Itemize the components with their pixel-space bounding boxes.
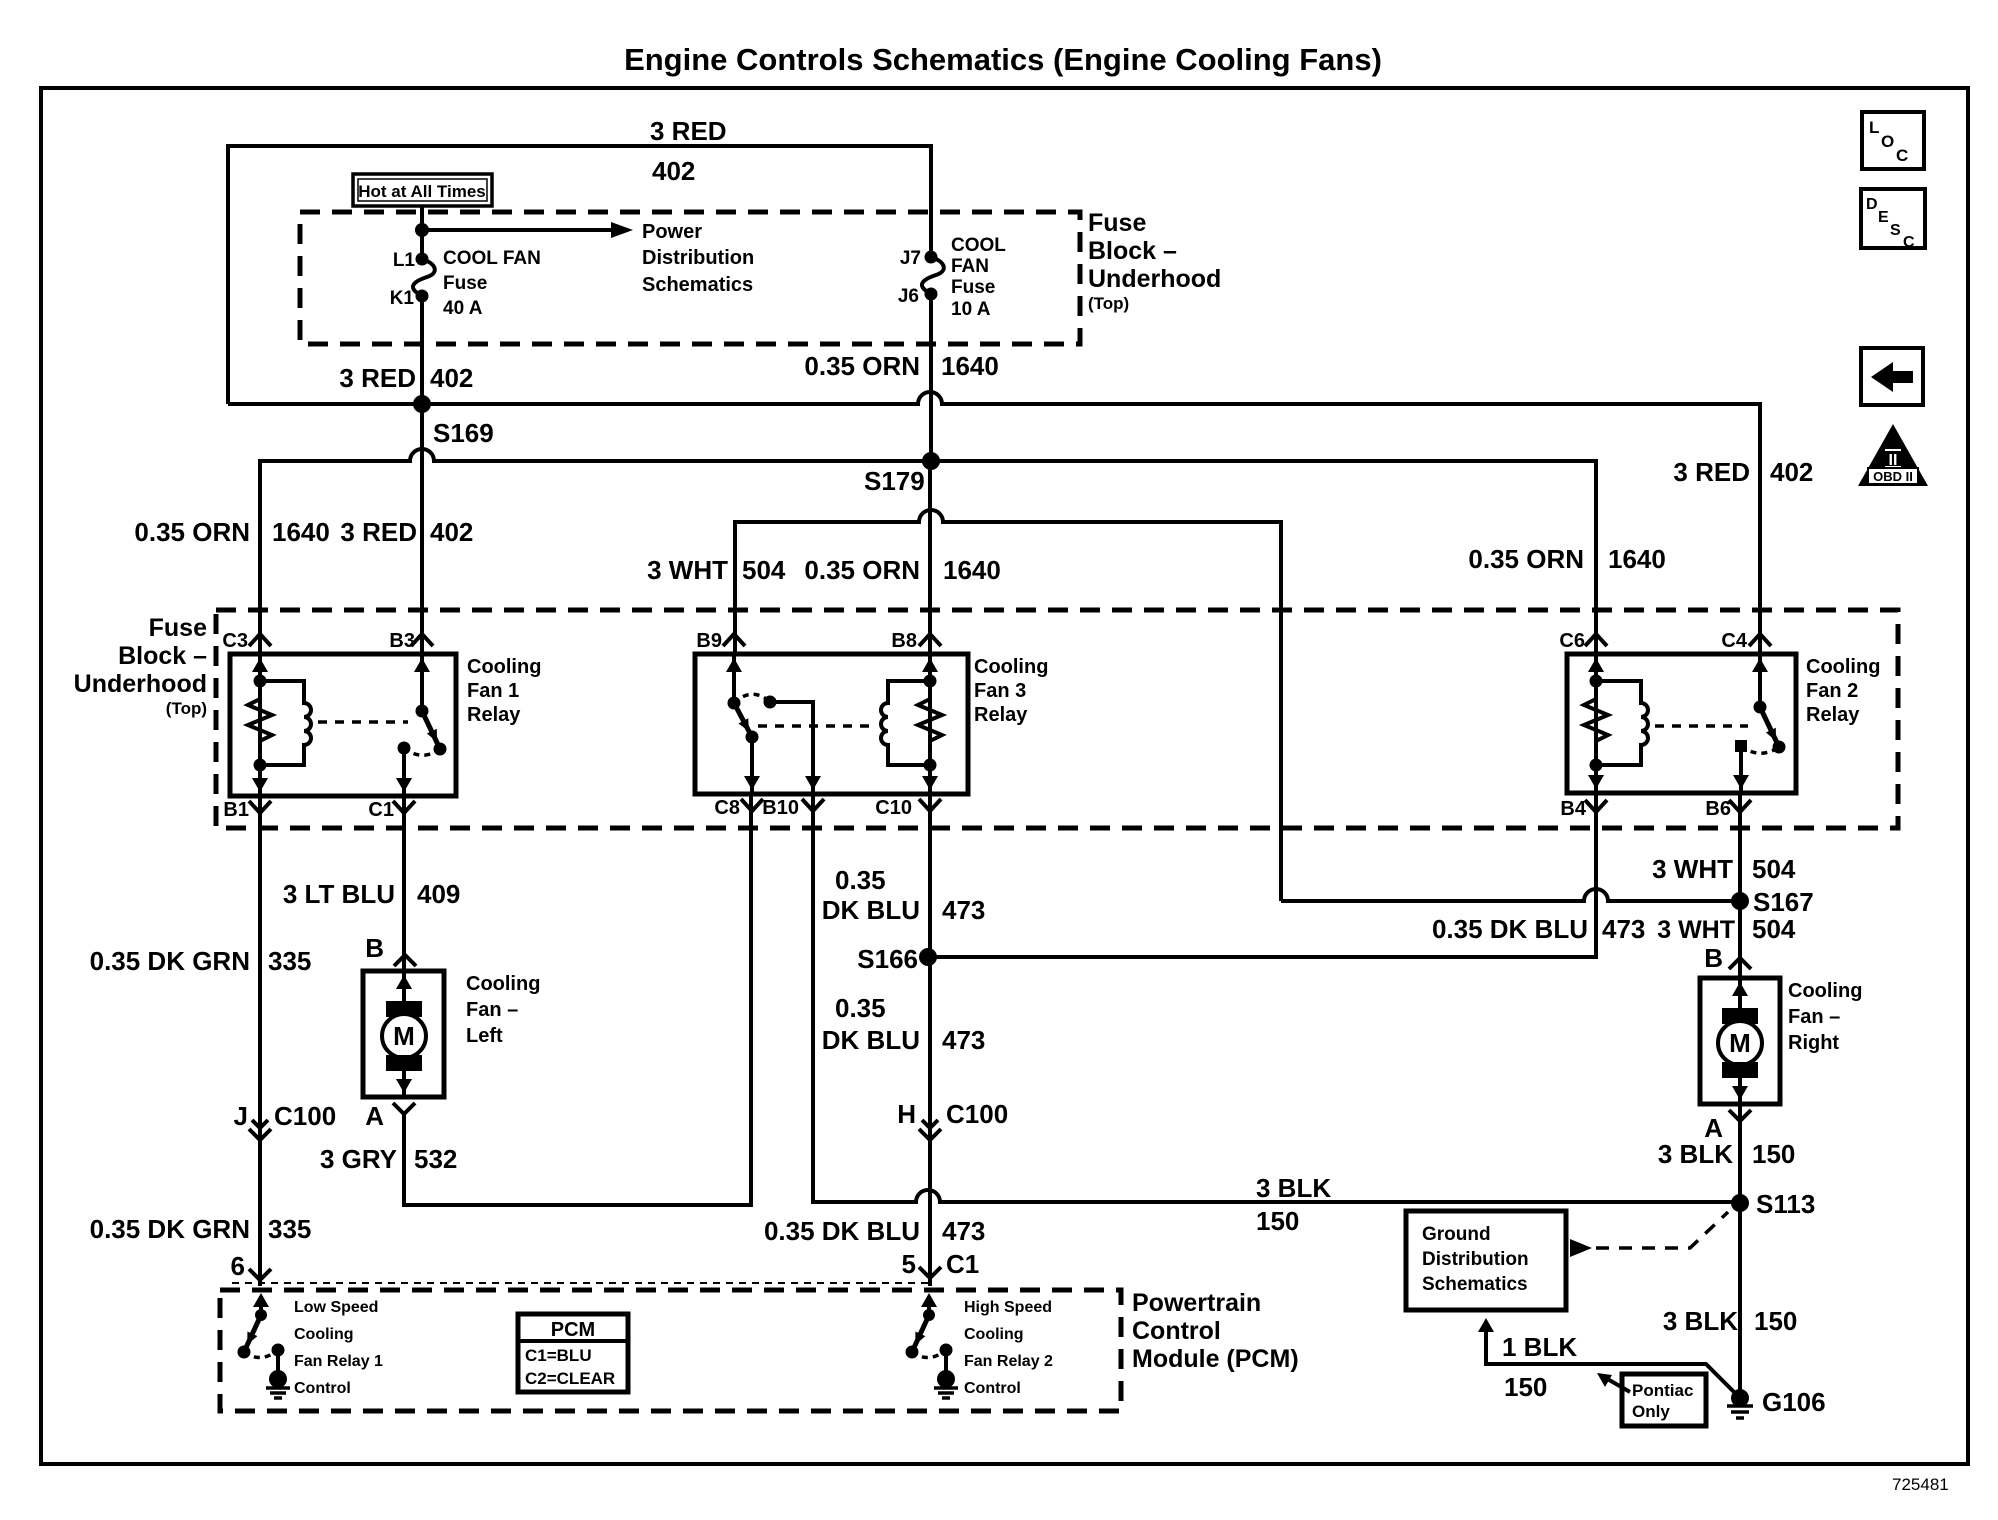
node S179 <box>922 452 940 470</box>
svg-text:Block –: Block – <box>1088 237 1177 265</box>
relay 3 resistor <box>918 699 942 741</box>
svg-text:3 GRY: 3 GRY <box>320 1144 397 1174</box>
svg-text:S166: S166 <box>857 944 918 974</box>
svg-text:3 RED: 3 RED <box>1673 457 1750 487</box>
relay 1 coil branch wire <box>258 654 262 796</box>
svg-text:Fan –: Fan – <box>466 999 518 1021</box>
svg-text:3 RED: 3 RED <box>340 517 417 547</box>
svg-text:DK BLU: DK BLU <box>822 895 920 925</box>
PCM low-speed driver switch <box>238 1293 291 1398</box>
svg-text:504: 504 <box>742 555 786 585</box>
svg-text:B: B <box>365 933 384 963</box>
svg-text:B9: B9 <box>696 630 722 652</box>
svg-text:473: 473 <box>1602 914 1645 944</box>
svg-text:C: C <box>1896 146 1908 165</box>
svg-text:3 RED: 3 RED <box>650 116 727 146</box>
svg-text:B3: B3 <box>389 630 415 652</box>
svg-text:3 BLK: 3 BLK <box>1663 1306 1738 1336</box>
svg-text:G106: G106 <box>1762 1387 1826 1417</box>
svg-text:504: 504 <box>1752 854 1796 884</box>
svg-text:Fan 1: Fan 1 <box>467 680 519 702</box>
svg-text:0.35 DK GRN: 0.35 DK GRN <box>90 1214 250 1244</box>
svg-text:150: 150 <box>1754 1306 1797 1336</box>
fuse COOL FAN 10A (J7/J6) <box>898 235 1006 320</box>
svg-text:C10: C10 <box>875 797 912 819</box>
wire S169 row with hop over ORN wire, to C4 riser <box>228 392 1760 654</box>
svg-text:150: 150 <box>1256 1206 1299 1236</box>
svg-text:(Top): (Top) <box>1088 294 1129 313</box>
svg-text:Ground: Ground <box>1422 1224 1491 1245</box>
svg-text:Fan 2: Fan 2 <box>1806 680 1858 702</box>
svg-text:473: 473 <box>942 1216 985 1246</box>
svg-text:C4: C4 <box>1721 630 1747 652</box>
svg-text:S179: S179 <box>864 466 925 496</box>
fuse block underhood dashed box (top) <box>300 212 1080 344</box>
svg-text:C1: C1 <box>368 799 394 821</box>
svg-text:Fan Relay 2: Fan Relay 2 <box>964 1353 1053 1370</box>
svg-text:Relay: Relay <box>1806 704 1860 726</box>
svg-text:Powertrain: Powertrain <box>1132 1289 1261 1317</box>
svg-text:0.35 ORN: 0.35 ORN <box>804 555 920 585</box>
fuse block underhood dashed box (main) <box>216 610 1898 828</box>
node S167 <box>1731 892 1749 910</box>
wire B1 down to PCM pin 6 <box>258 796 262 1286</box>
svg-text:Fuse: Fuse <box>149 614 207 642</box>
svg-text:504: 504 <box>1752 914 1796 944</box>
motor fan right <box>1700 943 1862 1143</box>
wire B4 to S166 row <box>928 793 1596 957</box>
svg-text:B1: B1 <box>223 799 249 821</box>
svg-text:473: 473 <box>942 895 985 925</box>
PCM high-speed driver switch <box>906 1293 959 1398</box>
svg-text:C3: C3 <box>222 630 248 652</box>
wire 3 WHT 504 row into S167 with hop over B4 wire <box>1281 889 1740 901</box>
svg-text:150: 150 <box>1504 1372 1547 1402</box>
svg-text:Cooling: Cooling <box>974 656 1048 678</box>
DESC icon <box>1861 189 1925 251</box>
relay 3 coil branch <box>928 654 932 794</box>
svg-text:Only: Only <box>1632 1402 1670 1421</box>
label Fuse Block Underhood (top right) <box>1088 209 1221 313</box>
svg-text:PCM: PCM <box>551 1319 595 1341</box>
svg-text:J: J <box>234 1101 248 1131</box>
svg-text:Schematics: Schematics <box>1422 1274 1528 1295</box>
fuse COOL FAN 40A (L1/K1) <box>390 248 541 319</box>
svg-text:J7: J7 <box>900 248 921 269</box>
relay 2 resistor <box>1584 699 1608 741</box>
svg-text:C8: C8 <box>714 797 740 819</box>
svg-text:Cooling: Cooling <box>294 1326 354 1343</box>
wire 3 GRY fan A to relay3 C8 <box>404 794 751 1205</box>
svg-text:L: L <box>1869 118 1879 137</box>
svg-text:C100: C100 <box>946 1099 1008 1129</box>
svg-text:Hot at All Times: Hot at All Times <box>358 182 486 201</box>
svg-text:S167: S167 <box>1753 887 1814 917</box>
relay 3 mech dashed link <box>758 724 876 728</box>
svg-text:Distribution: Distribution <box>1422 1249 1529 1270</box>
svg-text:Fuse: Fuse <box>443 273 487 294</box>
svg-text:3 WHT: 3 WHT <box>1652 854 1733 884</box>
svg-text:Fan Relay 1: Fan Relay 1 <box>294 1353 383 1370</box>
relay U2 Cooling Fan 2 Relay box <box>1567 654 1796 793</box>
svg-text:0.35 ORN: 0.35 ORN <box>804 351 920 381</box>
svg-text:Cooling: Cooling <box>467 656 541 678</box>
wire 3 RED 402 top loop <box>228 146 931 404</box>
relay 2 switch <box>1758 654 1762 707</box>
svg-text:402: 402 <box>430 363 473 393</box>
svg-text:3 BLK: 3 BLK <box>1256 1173 1331 1203</box>
svg-text:Relay: Relay <box>974 704 1028 726</box>
LOC icon <box>1862 112 1924 169</box>
ground G106 <box>1731 1389 1749 1407</box>
svg-text:5: 5 <box>902 1249 916 1279</box>
svg-text:C1=BLU: C1=BLU <box>525 1346 592 1365</box>
svg-text:1640: 1640 <box>943 555 1001 585</box>
Ground Distribution Schematics box <box>1406 1211 1566 1310</box>
svg-text:Control: Control <box>294 1380 351 1397</box>
connector C1 dashed line <box>232 1282 928 1284</box>
svg-text:B10: B10 <box>762 797 799 819</box>
relay 2 coil <box>1596 681 1648 765</box>
relay U1 Cooling Fan 1 Relay box <box>230 654 456 796</box>
svg-text:Cooling: Cooling <box>1788 980 1862 1002</box>
node S169 <box>413 395 431 413</box>
PCM table <box>518 1314 628 1392</box>
svg-text:3 RED: 3 RED <box>339 363 416 393</box>
wire 1 BLK 150 to G106 <box>1486 1330 1740 1398</box>
relay 1 mech dashed link <box>318 720 408 724</box>
wire C10 down to PCM pin 5 <box>928 794 932 1286</box>
svg-text:0.35: 0.35 <box>835 865 886 895</box>
svg-text:1640: 1640 <box>1608 544 1666 574</box>
svg-text:OBD II: OBD II <box>1873 469 1913 484</box>
svg-text:Power: Power <box>642 221 702 243</box>
svg-text:High Speed: High Speed <box>964 1299 1052 1316</box>
svg-text:3 WHT: 3 WHT <box>647 555 728 585</box>
svg-text:Pontiac: Pontiac <box>1632 1381 1693 1400</box>
PCM dashed box <box>220 1290 1121 1411</box>
svg-text:150: 150 <box>1752 1139 1795 1169</box>
relay 2 coil branch <box>1594 654 1598 793</box>
svg-text:402: 402 <box>652 156 695 186</box>
svg-text:Fan –: Fan – <box>1788 1006 1840 1028</box>
svg-text:A: A <box>365 1101 384 1131</box>
svg-text:1640: 1640 <box>272 517 330 547</box>
relay 1 coil <box>260 681 311 765</box>
svg-text:M: M <box>1729 1028 1751 1058</box>
relay 1 switch <box>420 654 424 711</box>
svg-text:COOL: COOL <box>951 235 1006 256</box>
svg-text:Relay: Relay <box>467 704 521 726</box>
svg-text:1 BLK: 1 BLK <box>1502 1332 1577 1362</box>
svg-text:402: 402 <box>1770 457 1813 487</box>
svg-text:Control: Control <box>1132 1317 1221 1345</box>
svg-text:0.35: 0.35 <box>835 993 886 1023</box>
svg-text:Cooling: Cooling <box>964 1326 1024 1343</box>
dashed pointer to S113 <box>1570 1239 1592 1257</box>
svg-text:Engine Controls Schematics (En: Engine Controls Schematics (Engine Cooli… <box>624 42 1382 77</box>
svg-text:Left: Left <box>466 1025 503 1047</box>
svg-text:3 BLK: 3 BLK <box>1658 1139 1733 1169</box>
relay 3 coil <box>881 681 930 765</box>
svg-text:Low Speed: Low Speed <box>294 1299 378 1316</box>
OBD II icon <box>1858 424 1928 486</box>
svg-text:Block –: Block – <box>118 642 207 670</box>
svg-text:O: O <box>1881 132 1894 151</box>
svg-text:H: H <box>897 1099 916 1129</box>
svg-text:FAN: FAN <box>951 256 989 277</box>
svg-text:473: 473 <box>942 1025 985 1055</box>
svg-text:0.35 DK BLU: 0.35 DK BLU <box>1432 914 1588 944</box>
svg-text:Fuse: Fuse <box>951 277 995 298</box>
svg-text:402: 402 <box>430 517 473 547</box>
svg-text:1640: 1640 <box>941 351 999 381</box>
svg-text:D: D <box>1866 196 1878 213</box>
svg-text:C2=CLEAR: C2=CLEAR <box>525 1369 615 1388</box>
svg-text:Module (PCM): Module (PCM) <box>1132 1345 1299 1373</box>
svg-text:C6: C6 <box>1559 630 1585 652</box>
svg-text:10 A: 10 A <box>951 299 991 320</box>
svg-text:0.35 DK GRN: 0.35 DK GRN <box>90 946 250 976</box>
svg-text:M: M <box>393 1021 415 1051</box>
svg-text:40 A: 40 A <box>443 298 483 319</box>
svg-text:Underhood: Underhood <box>1088 265 1221 293</box>
svg-text:0.35 ORN: 0.35 ORN <box>134 517 250 547</box>
svg-text:Fuse: Fuse <box>1088 209 1146 237</box>
svg-text:C1: C1 <box>946 1249 979 1279</box>
svg-text:K1: K1 <box>390 288 415 309</box>
wire from Hot tag down to B3 <box>420 206 424 257</box>
svg-text:Control: Control <box>964 1380 1021 1397</box>
relay 3 switch <box>732 654 736 703</box>
label Fuse Block Underhood (left) <box>74 614 207 718</box>
relay 1 resistor <box>248 699 272 741</box>
svg-text:725481: 725481 <box>1892 1475 1949 1494</box>
svg-text:S113: S113 <box>1756 1189 1815 1219</box>
wire 3 WHT 504 riser row to B9 and down right <box>735 510 1281 901</box>
relay U3 Cooling Fan 3 Relay box <box>695 654 968 794</box>
svg-text:3 LT BLU: 3 LT BLU <box>283 879 395 909</box>
svg-text:C100: C100 <box>274 1101 336 1131</box>
motor fan left <box>363 933 540 1131</box>
node S166 <box>919 948 937 966</box>
svg-text:B6: B6 <box>1705 798 1731 820</box>
svg-text:409: 409 <box>417 879 460 909</box>
svg-text:S: S <box>1890 222 1901 239</box>
svg-text:6: 6 <box>231 1251 245 1281</box>
svg-text:COOL FAN: COOL FAN <box>443 248 541 269</box>
svg-text:S169: S169 <box>433 418 494 448</box>
svg-text:Schematics: Schematics <box>642 274 753 296</box>
svg-text:L1: L1 <box>393 250 416 271</box>
svg-text:Distribution: Distribution <box>642 247 754 269</box>
svg-text:B: B <box>1704 943 1723 973</box>
svg-text:Right: Right <box>1788 1032 1839 1054</box>
svg-text:Cooling: Cooling <box>1806 656 1880 678</box>
svg-text:3 WHT: 3 WHT <box>1657 916 1735 944</box>
relay 2 mech dashed link <box>1655 724 1748 728</box>
wire 3 BLK B10 to S113 with hop over DK BLU <box>813 794 1740 1202</box>
svg-text:0.35 ORN: 0.35 ORN <box>1468 544 1584 574</box>
wire C1 down to fan left <box>402 796 406 971</box>
svg-text:335: 335 <box>268 946 311 976</box>
svg-text:(Top): (Top) <box>166 699 207 718</box>
svg-text:J6: J6 <box>898 286 919 307</box>
svg-text:335: 335 <box>268 1214 311 1244</box>
svg-text:Fan 3: Fan 3 <box>974 680 1026 702</box>
svg-text:DK BLU: DK BLU <box>822 1025 920 1055</box>
arrow to Power Distribution Schematics <box>422 228 614 232</box>
wire B6 to S167 to fan right to S113 to G106 <box>1738 793 1742 1398</box>
svg-text:0.35 DK BLU: 0.35 DK BLU <box>764 1216 920 1246</box>
node S113 <box>1731 1194 1749 1212</box>
svg-text:B4: B4 <box>1560 798 1586 820</box>
Hot at All Times tag <box>353 174 492 206</box>
svg-text:Underhood: Underhood <box>74 670 207 698</box>
wire S179 row: C3 riser to C6 riser with hop over B3 wire <box>260 449 1596 654</box>
svg-text:C: C <box>1903 234 1915 251</box>
node arrow junction dot <box>415 223 429 237</box>
svg-text:532: 532 <box>414 1144 457 1174</box>
svg-text:Cooling: Cooling <box>466 973 540 995</box>
svg-text:B8: B8 <box>891 630 917 652</box>
back-arrow icon <box>1861 348 1923 405</box>
wire J6 down to S179 <box>930 294 931 654</box>
Pontiac Only tag <box>1597 1373 1706 1426</box>
svg-text:E: E <box>1878 209 1889 226</box>
